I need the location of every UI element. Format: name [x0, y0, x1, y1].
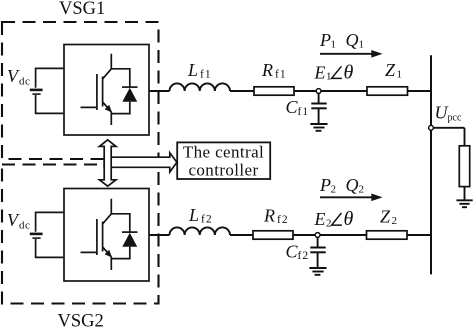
svg-text:L: L [188, 205, 199, 225]
svg-text:R: R [261, 60, 273, 80]
svg-text:U: U [435, 103, 449, 123]
svg-text:θ: θ [344, 61, 354, 83]
svg-text:f2: f2 [298, 250, 310, 262]
svg-text:f2: f2 [277, 214, 289, 226]
svg-text:2: 2 [359, 183, 365, 195]
svg-text:P: P [319, 30, 331, 50]
svg-text:E: E [314, 209, 326, 229]
svg-text:Z: Z [380, 207, 391, 227]
svg-text:2: 2 [326, 217, 332, 229]
svg-text:Q: Q [346, 175, 359, 195]
svg-text:Z: Z [385, 60, 396, 80]
svg-text:f1: f1 [200, 69, 212, 81]
svg-text:1: 1 [397, 69, 403, 81]
svg-text:dc: dc [19, 76, 30, 88]
svg-text:VSG1: VSG1 [59, 0, 105, 19]
svg-text:E: E [314, 62, 326, 82]
svg-text:2: 2 [392, 215, 398, 227]
svg-text:L: L [187, 60, 198, 80]
svg-text:2: 2 [331, 183, 337, 195]
svg-text:The central: The central [183, 143, 264, 162]
svg-text:f1: f1 [298, 106, 310, 118]
svg-text:VSG2: VSG2 [58, 312, 104, 327]
svg-text:f2: f2 [201, 213, 213, 225]
svg-text:1: 1 [359, 38, 365, 50]
svg-text:R: R [263, 206, 275, 226]
svg-text:θ: θ [344, 208, 354, 230]
svg-text:1: 1 [331, 38, 337, 50]
svg-text:1: 1 [326, 71, 332, 83]
svg-text:pcc: pcc [448, 113, 462, 124]
svg-text:controller: controller [188, 161, 258, 180]
svg-text:dc: dc [19, 220, 30, 232]
svg-text:Q: Q [346, 30, 359, 50]
svg-text:P: P [319, 175, 331, 195]
svg-text:f1: f1 [275, 69, 287, 81]
